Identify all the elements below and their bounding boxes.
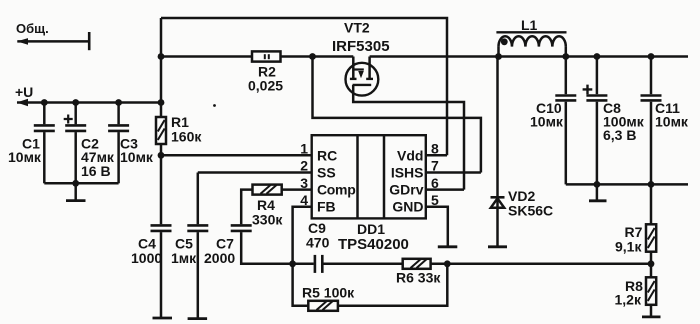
junction dot C1 top — [41, 99, 48, 106]
svg-text:IRF5305: IRF5305 — [332, 38, 390, 55]
junction dot R1 bottom / pin 1 — [158, 152, 165, 159]
wire ISNS sense to pin 7 — [313, 57, 481, 173]
resistor R2 — [252, 51, 281, 61]
junction dot R5 right — [444, 260, 451, 267]
resistor R4 — [241, 185, 282, 225]
ground C4 — [153, 317, 173, 320]
svg-text:DD1: DD1 — [357, 221, 385, 237]
svg-text:160к: 160к — [171, 129, 202, 145]
junction dot sense line left — [158, 53, 165, 60]
svg-text:L1: L1 — [521, 17, 538, 33]
capacitor C1 — [34, 103, 55, 184]
svg-text:1мк: 1мк — [171, 250, 197, 266]
capacitor C11 — [641, 57, 662, 185]
svg-text:Общ.: Общ. — [16, 21, 49, 36]
svg-text:FB: FB — [317, 199, 336, 215]
wire VT2 drain to switch node — [370, 55, 499, 58]
resistor R8 — [646, 277, 656, 316]
junction dot input caps ground — [72, 180, 79, 187]
IC DD1 pin labels — [317, 147, 424, 214]
junction dot C2 top — [72, 99, 79, 106]
wire R2 to VT2 source — [281, 55, 354, 58]
svg-text:GND: GND — [392, 199, 423, 215]
svg-text:10мк: 10мк — [120, 149, 154, 165]
svg-text:10мк: 10мк — [655, 114, 689, 130]
diode VD2 — [491, 57, 505, 246]
svg-text:3: 3 — [300, 175, 308, 191]
svg-text:VT2: VT2 — [344, 20, 370, 36]
svg-text:16 В: 16 В — [81, 163, 111, 179]
svg-text:7: 7 — [431, 158, 439, 174]
svg-text:470: 470 — [306, 235, 330, 251]
junction dot R1 top — [158, 99, 165, 106]
svg-text:6,3 В: 6,3 В — [603, 127, 636, 143]
svg-text:0,025: 0,025 — [248, 78, 283, 94]
svg-text:ISHS: ISHS — [391, 165, 424, 181]
capacitor C8 — [583, 57, 608, 185]
svg-text:6: 6 — [431, 175, 439, 191]
pin 8 stub — [426, 154, 447, 157]
pin 1 stub — [161, 154, 312, 157]
capacitor C5 — [187, 173, 208, 318]
svg-text:1000: 1000 — [131, 250, 162, 266]
svg-text:2: 2 — [300, 158, 308, 174]
junction dot L1/C10 — [562, 53, 569, 60]
junction dot ISNS tap — [309, 53, 316, 60]
wire VT2 gate to GDrv — [353, 85, 464, 190]
svg-text:10мк: 10мк — [8, 149, 42, 165]
svg-text:TPS40200: TPS40200 — [338, 236, 409, 253]
svg-text:Comp: Comp — [317, 182, 355, 198]
pin 4 stub — [293, 207, 312, 264]
pin 6 stub — [426, 188, 464, 191]
capacitor C2 — [64, 103, 86, 184]
transistor VT2 — [346, 57, 379, 96]
junction dot switch node — [495, 53, 502, 60]
pin 3 stub — [282, 188, 312, 191]
resistor R1 — [156, 103, 166, 156]
ground input caps — [66, 183, 86, 200]
svg-text:Vdd: Vdd — [397, 147, 423, 163]
svg-text:2000: 2000 — [204, 250, 235, 266]
svg-text:R6 33к: R6 33к — [396, 270, 441, 286]
svg-text:R5 100к: R5 100к — [302, 285, 355, 301]
capacitor C7 — [231, 225, 293, 263]
svg-text:10мк: 10мк — [530, 114, 564, 130]
pin 5 stub — [426, 207, 448, 246]
ground VD2 — [488, 245, 507, 248]
wire output ground rail — [566, 183, 688, 186]
svg-text:9,1к: 9,1к — [615, 238, 642, 254]
wire +U rail to top rail — [160, 18, 163, 103]
pin 2 stub — [198, 171, 312, 174]
capacitor C3 — [108, 103, 129, 184]
svg-text:GDrv: GDrv — [389, 182, 423, 198]
capacitor C4 — [151, 155, 172, 317]
svg-text:330к: 330к — [252, 212, 283, 228]
pin numbers — [300, 141, 439, 209]
wire input to R2 — [161, 55, 252, 58]
svg-text:1,2к: 1,2к — [615, 291, 642, 307]
ground output rail — [589, 184, 607, 200]
wire top Vdd rail — [161, 18, 447, 155]
resistor R7 — [646, 184, 656, 277]
svg-text:4: 4 — [300, 192, 308, 208]
svg-text:8: 8 — [431, 141, 439, 157]
capacitor C9 — [293, 255, 403, 273]
ground IC pin 5 — [438, 245, 458, 248]
pin 7 stub — [426, 171, 481, 174]
svg-text:SS: SS — [317, 165, 336, 181]
junction dot C3 top — [115, 99, 122, 106]
junction dot C11 top — [648, 53, 655, 60]
wire output rail — [499, 55, 689, 58]
junction dot C11 bottom — [648, 181, 655, 188]
IC DD1 box — [312, 135, 426, 218]
svg-text:5: 5 — [431, 192, 439, 208]
ground R8 — [642, 315, 661, 318]
junction dot C8 bottom — [594, 181, 601, 188]
wire input caps common — [44, 182, 118, 185]
junction dot feedback tap — [648, 260, 655, 267]
svg-text:1: 1 — [300, 141, 308, 157]
junction dot C8 top — [594, 53, 601, 60]
node Общ. (common terminal) — [17, 32, 89, 50]
resistor R5 — [293, 264, 448, 311]
svg-text:+U: +U — [15, 84, 33, 100]
resistor R6 — [403, 259, 651, 269]
capacitor C10 — [555, 57, 576, 185]
stray mark — [213, 104, 216, 107]
node +U (input rail) — [17, 99, 161, 106]
ground C5 — [188, 317, 208, 320]
svg-text:RC: RC — [317, 147, 337, 163]
svg-text:SK56C: SK56C — [508, 203, 553, 219]
junction dot FB node — [289, 260, 296, 267]
inductor L1 — [496, 32, 566, 56]
